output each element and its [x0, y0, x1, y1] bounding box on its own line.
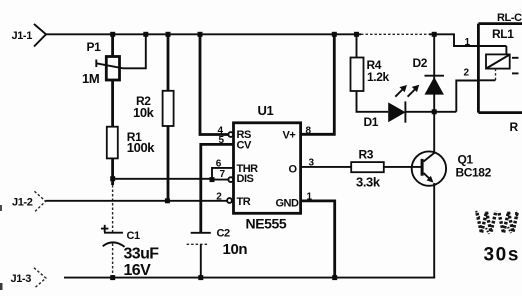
svg-text:C1: C1	[127, 230, 141, 242]
node J1-2 connector	[12, 191, 46, 212]
svg-text:1.2k: 1.2k	[367, 70, 389, 84]
svg-text:5: 5	[219, 135, 225, 146]
svg-text:C2: C2	[217, 228, 231, 240]
wire C1 to bottom rail	[112, 244, 114, 278]
wire THR-DIS horizontal	[113, 178, 212, 180]
junction R4 top	[354, 32, 359, 37]
svg-text:D1: D1	[364, 115, 379, 129]
svg-text:1M: 1M	[82, 71, 99, 86]
wire CV pin 5 to C2	[201, 144, 234, 232]
wire rail to P1	[111, 34, 114, 56]
svg-text:RL1: RL1	[492, 27, 514, 41]
wire GND pin 1 to bottom rail	[301, 201, 335, 278]
junction THR hook	[210, 177, 215, 182]
junction D2 top	[432, 32, 437, 37]
wire rail to RS pin 4	[200, 34, 228, 134]
wire wiper to rail	[123, 34, 146, 68]
svg-text:RL-C: RL-C	[497, 12, 522, 24]
LED emission arrow 2	[408, 85, 420, 97]
wire rail to R2	[167, 34, 170, 91]
wire bottom ground rail	[64, 277, 435, 279]
potentiometer P1	[87, 40, 124, 80]
capacitor C2	[187, 228, 230, 245]
pin 4 inversion circle RS	[228, 132, 233, 137]
node J1-1 connector	[12, 24, 47, 47]
diode D2	[413, 56, 445, 95]
junction RS branch	[198, 32, 203, 37]
resistor R2	[136, 91, 174, 126]
junction D2 anode	[432, 109, 437, 114]
pin 2 inversion circle TR	[227, 198, 232, 203]
svg-text:TR: TR	[237, 196, 251, 208]
scan artifact mark	[0, 283, 3, 290]
junction R2 top	[166, 32, 171, 37]
wire C2 to bottom rail	[200, 244, 202, 277]
relay coil	[478, 46, 509, 80]
svg-text:100k: 100k	[127, 140, 155, 155]
junction P1 top	[110, 32, 115, 37]
wire D-line to relay pin 2	[456, 81, 478, 112]
junction C2 / bottom rail	[198, 275, 203, 280]
wire V+ pin 8 to rail	[301, 34, 335, 134]
LED emission arrow 1	[395, 85, 407, 97]
svg-text:D2: D2	[413, 56, 428, 70]
transistor Q1	[412, 151, 474, 185]
wire J1-2 to TR pin 2	[46, 200, 228, 202]
wire O pin 3 to R3	[301, 166, 352, 168]
wire D1 cathode to D2 node	[405, 111, 456, 113]
wire hook to THR pin 6	[212, 168, 234, 180]
svg-text:J1-3: J1-3	[11, 273, 32, 285]
svg-text:BC182: BC182	[456, 166, 492, 180]
svg-text:2: 2	[216, 191, 222, 202]
wire rail to R4	[356, 34, 358, 57]
resistor R4	[351, 58, 382, 92]
wire Q1 emitter to bottom rail	[433, 183, 435, 278]
wire P1 to R1	[111, 80, 114, 127]
wire R3 to Q1 base	[384, 166, 421, 168]
svg-text:J1-1: J1-1	[12, 30, 33, 42]
relay contact stubs	[512, 57, 519, 59]
junction C1 / bottom rail	[110, 275, 115, 280]
svg-text:33uF: 33uF	[124, 246, 160, 263]
resistor R1	[107, 127, 142, 159]
svg-text:30s: 30s	[484, 245, 521, 266]
pin 7 inversion circle DIS	[228, 177, 233, 182]
junction V+ branch	[332, 32, 337, 37]
svg-text:10n: 10n	[223, 241, 248, 258]
svg-text:Q1: Q1	[458, 153, 474, 167]
resistor R3	[351, 148, 384, 173]
wire Q1 collector to D-line	[433, 112, 435, 153]
op-amp/timer IC U1 NE555 box	[234, 103, 301, 232]
junction R2 bottom / TR line	[165, 198, 170, 203]
svg-text:10k: 10k	[133, 105, 155, 120]
wire R4 to D1	[357, 91, 389, 112]
svg-text:3.3k: 3.3k	[356, 175, 381, 190]
scan artifact mark	[0, 205, 2, 211]
svg-text:U1: U1	[258, 103, 274, 118]
svg-text:6: 6	[216, 159, 222, 170]
svg-text:P1: P1	[87, 40, 102, 54]
svg-text:7: 7	[220, 169, 226, 180]
svg-text:O: O	[289, 164, 298, 176]
relay RL1 box	[478, 24, 522, 113]
junction GND / bottom rail	[332, 275, 337, 280]
wire R2 bottom to TR line	[167, 126, 170, 201]
svg-text:V+: V+	[283, 130, 296, 142]
junction wiper top	[143, 32, 148, 37]
svg-text:2: 2	[464, 68, 470, 79]
wire top supply rail	[46, 33, 361, 35]
watermark scribble WW	[476, 211, 518, 234]
svg-text:R3: R3	[359, 148, 374, 162]
svg-text:J1-2: J1-2	[12, 197, 33, 209]
node J1-3 connector	[11, 268, 46, 289]
svg-text:1: 1	[465, 37, 471, 48]
wire R1 branch to C1 (degraded dotted in scan)	[112, 185, 114, 232]
capacitor C1 (electrolytic)	[101, 225, 140, 247]
svg-text:NE555: NE555	[246, 216, 287, 232]
wire R1 to THR/DIS junction	[111, 158, 114, 185]
junction R1/THR-DIS	[110, 176, 115, 181]
LED D1	[364, 101, 406, 129]
svg-text:R: R	[510, 120, 519, 134]
wire DIS stub pin 7	[212, 179, 228, 181]
svg-text:DIS: DIS	[237, 173, 254, 185]
wire D2 vertical (rail to D-line)	[433, 34, 435, 112]
svg-text:CV: CV	[237, 140, 252, 152]
svg-text:GND: GND	[276, 198, 300, 210]
svg-text:16V: 16V	[124, 262, 152, 279]
